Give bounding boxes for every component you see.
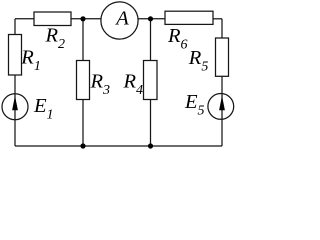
- wire node B to R6: [138, 18, 165, 20]
- svg-text:E5: E5: [184, 91, 205, 119]
- wire right rail upper: [221, 19, 223, 38]
- wire node A down to R3: [82, 19, 84, 61]
- svg-text:A: A: [114, 8, 129, 30]
- wire node B down to R4: [150, 19, 152, 61]
- wire right rail E5 to bottom: [221, 119, 223, 146]
- source E1 arrowhead: [12, 96, 18, 111]
- resistor R3: [77, 61, 90, 100]
- wire right rail R5 to E5: [221, 76, 223, 93]
- wire top-left horizontal: [15, 18, 34, 20]
- wire bottom rail: [15, 145, 222, 147]
- svg-text:R2: R2: [45, 24, 66, 52]
- resistor R5: [216, 38, 229, 76]
- node C junction dot: [80, 143, 85, 148]
- svg-text:E1: E1: [33, 95, 54, 123]
- resistor R1: [9, 35, 22, 76]
- wire left rail upper: [14, 19, 16, 35]
- wire R2 to node A: [71, 18, 102, 20]
- node B junction dot: [148, 16, 153, 21]
- svg-text:R6: R6: [167, 25, 188, 53]
- svg-text:R4: R4: [123, 71, 144, 99]
- wire R3 to bottom: [82, 100, 84, 147]
- node A junction dot: [80, 16, 85, 21]
- source E5 circle: [208, 94, 234, 120]
- wire R6 to top-right corner: [213, 18, 222, 20]
- svg-text:R3: R3: [90, 71, 111, 99]
- svg-text:R1: R1: [20, 46, 41, 74]
- resistor R2: [34, 12, 71, 26]
- wire R4 to bottom: [150, 100, 152, 147]
- source E1 arrow shaft: [14, 94, 16, 120]
- wire left rail E1 to bottom: [14, 120, 16, 146]
- wire left rail R1 to E1: [14, 75, 16, 94]
- svg-text:R5: R5: [188, 47, 209, 75]
- resistor R4: [144, 61, 158, 100]
- op-amp U1: [101, 2, 138, 39]
- resistor R6: [165, 11, 213, 24]
- node D junction dot: [148, 143, 153, 148]
- source E1 circle: [2, 94, 28, 120]
- source E5 arrowhead: [219, 96, 225, 111]
- source E5 arrow shaft: [221, 93, 223, 119]
